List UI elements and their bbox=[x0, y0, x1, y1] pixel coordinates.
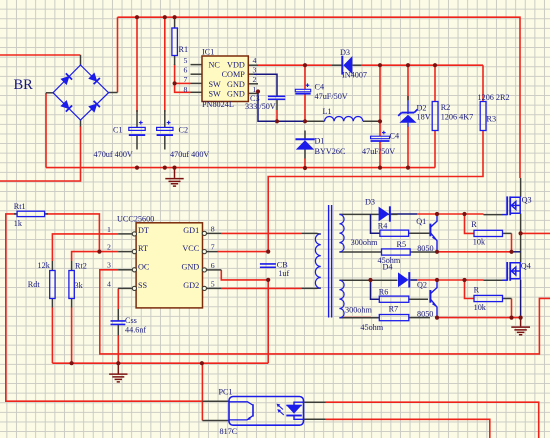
diode D3a IN4007 bbox=[342, 56, 352, 75]
node Css bottom rail bbox=[116, 361, 120, 365]
wire C4a top drop bbox=[304, 65, 306, 89]
ground right (Q4 source) bbox=[511, 318, 530, 335]
wire BR right vertex to top rail bbox=[117, 17, 119, 92]
node R10k2 bottom bbox=[509, 316, 513, 320]
resistor R3 bbox=[480, 102, 486, 131]
optocoupler PC1 box bbox=[229, 397, 304, 426]
wire BR right stub bbox=[109, 92, 118, 94]
wire R1 bottom stub bbox=[174, 56, 176, 66]
wire R3 bottom to VCC loop bbox=[268, 131, 483, 253]
wire GD1 coil lead bbox=[301, 232, 320, 235]
wire D3a right lead bbox=[353, 64, 362, 66]
node Rt2 bottom rail bbox=[70, 361, 74, 365]
svg-text:C4: C4 bbox=[390, 132, 400, 141]
wire D1 bottom stub bbox=[304, 150, 306, 159]
wire sec1 bottom lead red bbox=[343, 317, 371, 319]
wire Q3 gate lead bbox=[484, 214, 503, 216]
wire C3 bottom red bbox=[276, 110, 278, 121]
svg-text:IN4007: IN4007 bbox=[342, 71, 367, 80]
node pin1 IC1 bbox=[256, 89, 260, 93]
wire PC1 emitter stub bbox=[202, 420, 229, 422]
svg-text:2: 2 bbox=[253, 75, 257, 84]
svg-text:6: 6 bbox=[184, 66, 188, 75]
svg-text:OC: OC bbox=[138, 263, 150, 272]
wire D1 top stub bbox=[304, 131, 306, 139]
svg-text:GD2: GD2 bbox=[183, 281, 199, 290]
wire Css top stub bbox=[117, 309, 119, 321]
transformer secondary bottom coil bbox=[339, 280, 344, 318]
wire GD2 coil lead bbox=[301, 287, 320, 289]
svg-text:4: 4 bbox=[253, 56, 257, 65]
wire HB node to Q4 drain bbox=[520, 233, 522, 262]
wire CB vertical gnd bbox=[267, 280, 269, 363]
ground mid (main rail) bbox=[109, 363, 127, 382]
wire D1 red part bbox=[304, 159, 306, 169]
svg-text:470uf 400V: 470uf 400V bbox=[170, 150, 209, 159]
wire DT pin1 bbox=[52, 234, 118, 261]
diode D4 bbox=[398, 272, 409, 287]
wire sec2 top lead bbox=[339, 279, 397, 281]
svg-text:1: 1 bbox=[253, 85, 257, 94]
node C4a top bbox=[303, 63, 307, 67]
svg-text:BR: BR bbox=[14, 77, 34, 93]
svg-text:VDD: VDD bbox=[227, 61, 245, 70]
node R10k1 emitter bbox=[509, 250, 513, 254]
BR diode top-left bbox=[61, 73, 72, 84]
svg-text:R6: R6 bbox=[379, 287, 389, 296]
svg-text:Q2: Q2 bbox=[417, 280, 427, 289]
wire PC1 led top stub bbox=[304, 401, 326, 403]
svg-text:47uF/50V: 47uF/50V bbox=[362, 147, 395, 156]
wire R5 to Q1 emitter bbox=[410, 251, 437, 253]
svg-text:1uf: 1uf bbox=[278, 269, 289, 278]
wire IC1 pin5 stub bbox=[191, 64, 203, 66]
resistor Rt1 bbox=[17, 211, 44, 216]
wire L1 right stub bbox=[363, 120, 380, 122]
wire R6 to Q2 base bbox=[409, 298, 428, 300]
wire Rdt bottom stub bbox=[51, 299, 53, 308]
svg-text:18V: 18V bbox=[417, 113, 431, 122]
svg-text:R7: R7 bbox=[389, 304, 399, 313]
svg-text:300ohm: 300ohm bbox=[351, 238, 378, 247]
resistor R5 bbox=[382, 249, 411, 255]
wire Rt2 bottom bbox=[71, 308, 73, 364]
svg-text:300ohm: 300ohm bbox=[345, 305, 372, 314]
transistor Q2 8050 bbox=[430, 280, 437, 318]
svg-text:R: R bbox=[471, 220, 477, 229]
node C3 bottom bbox=[275, 119, 279, 123]
node VCC/CB top bbox=[266, 250, 270, 254]
node D2 top bbox=[406, 63, 410, 67]
node C1 top bbox=[135, 15, 139, 19]
wire gnd top rail bbox=[46, 167, 435, 169]
svg-text:7: 7 bbox=[211, 243, 215, 252]
svg-text:NC: NC bbox=[209, 61, 221, 70]
wire R10k-2 right stub bbox=[503, 298, 512, 300]
wire R2 bottom lead bbox=[434, 131, 436, 168]
wire UCC pin2 stub bbox=[118, 251, 132, 253]
wire GD1 red bbox=[221, 232, 301, 234]
mosfet Q3 bbox=[502, 196, 520, 215]
node gnd top bbox=[172, 166, 176, 170]
svg-text:D3: D3 bbox=[340, 48, 350, 57]
svg-text:GND: GND bbox=[227, 80, 245, 89]
capacitor C3 bbox=[268, 96, 285, 99]
node D1 bottom bbox=[303, 166, 307, 170]
diode D3b bbox=[379, 206, 390, 221]
wire pin6 GND route bbox=[221, 270, 268, 280]
wire R3 top lead bbox=[482, 65, 484, 101]
wire C4a bottom to L1 node bbox=[304, 94, 306, 122]
svg-text:1k: 1k bbox=[14, 219, 23, 228]
capacitor C1 bbox=[129, 121, 145, 135]
svg-text:IC1: IC1 bbox=[202, 48, 214, 57]
node L1 out top bbox=[378, 63, 382, 67]
wire Rt1 left to PC1 collector bbox=[6, 214, 203, 401]
wire RT row bbox=[72, 252, 119, 261]
wire sec2 bottom lead bbox=[339, 317, 379, 319]
wire D2 bottom lead bbox=[407, 127, 409, 168]
svg-text:Rt2: Rt2 bbox=[75, 262, 87, 271]
wire BR top stub bbox=[80, 55, 82, 66]
svg-text:R5: R5 bbox=[397, 240, 407, 249]
svg-text:GD1: GD1 bbox=[183, 226, 199, 235]
wire Css bottom stub bbox=[117, 325, 119, 336]
svg-text:8: 8 bbox=[211, 224, 215, 233]
svg-text:12k: 12k bbox=[38, 261, 51, 270]
svg-text:817C: 817C bbox=[220, 427, 238, 436]
diode D1 BYV26C bbox=[296, 139, 315, 149]
wire Rdt top stub bbox=[51, 261, 53, 271]
svg-text:10k: 10k bbox=[474, 303, 487, 312]
wire L1 left stub bbox=[305, 120, 325, 122]
zener D2 bbox=[398, 101, 417, 127]
wire sec1 bottom lead to R5 bbox=[339, 251, 381, 253]
wire IC1 pin8 stub bbox=[191, 91, 203, 93]
svg-text:Q3: Q3 bbox=[522, 195, 532, 204]
BR diode bottom-right bbox=[89, 101, 100, 112]
wire Rt1 right to RT dot bbox=[45, 214, 100, 252]
svg-text:R3: R3 bbox=[487, 115, 497, 124]
wire D2 top lead bbox=[407, 65, 409, 100]
PC1 phototransistor bbox=[229, 402, 253, 421]
wire C4b top red bbox=[379, 121, 381, 136]
svg-text:44.6nf: 44.6nf bbox=[125, 326, 146, 335]
transformer secondary top coil bbox=[339, 214, 344, 252]
wire R10k-1 right riser bbox=[511, 233, 513, 251]
resistor R2 bbox=[432, 102, 438, 131]
BR diode bottom-left bbox=[61, 100, 72, 111]
wire UCC pin3 stub bbox=[118, 269, 132, 271]
wire C2 stub top bbox=[164, 110, 166, 127]
svg-text:RT: RT bbox=[138, 244, 148, 253]
svg-text:8: 8 bbox=[184, 85, 188, 94]
wire D2 stub bbox=[407, 96, 409, 101]
resistor Rdt bbox=[50, 271, 55, 299]
wire VCC pin7 red bbox=[218, 251, 268, 253]
capacitor Css bbox=[111, 321, 126, 325]
resistor R6 bbox=[379, 296, 409, 302]
svg-text:D3: D3 bbox=[365, 198, 375, 207]
svg-text:3: 3 bbox=[107, 261, 111, 270]
resistor R1 bbox=[172, 28, 178, 56]
svg-text:PC1: PC1 bbox=[219, 388, 233, 397]
svg-text:Css: Css bbox=[125, 316, 137, 325]
IC1 body bbox=[202, 56, 248, 102]
svg-text:GND: GND bbox=[181, 263, 199, 272]
node sec2/R6 bbox=[368, 278, 372, 282]
capacitor C4b bbox=[371, 131, 390, 141]
svg-text:6: 6 bbox=[211, 261, 215, 270]
wire IC1 pin7 stub bbox=[191, 82, 203, 84]
node C2 top bbox=[163, 15, 167, 19]
svg-text:R: R bbox=[474, 286, 480, 295]
wire UCC pin5 stub bbox=[207, 287, 221, 289]
wire L1 out drop bbox=[379, 65, 381, 121]
svg-text:47uF/50V: 47uF/50V bbox=[315, 92, 348, 101]
svg-text:Q1: Q1 bbox=[416, 217, 426, 226]
wire PC1 emitter drop bbox=[201, 363, 203, 420]
wire sec1 top lead bbox=[339, 213, 397, 215]
svg-text:C2: C2 bbox=[179, 126, 189, 135]
wire BR bottom stub bbox=[80, 120, 82, 127]
resistor R7 bbox=[379, 315, 409, 321]
wire R10k-2 right riser bbox=[511, 299, 513, 318]
svg-text:1206 2R2: 1206 2R2 bbox=[478, 93, 510, 102]
wire Q4 source column bbox=[520, 280, 522, 318]
UCC pin circles left bbox=[132, 231, 206, 290]
wire UCC pin7 stub bbox=[207, 251, 218, 253]
capacitor C2 bbox=[157, 121, 173, 135]
svg-text:PN8024L: PN8024L bbox=[202, 100, 234, 109]
node Q4 gate bbox=[462, 278, 466, 282]
svg-text:D2: D2 bbox=[417, 104, 427, 113]
wire R7 to Q2 emitter bbox=[409, 317, 430, 319]
resistor Rt2 bbox=[69, 271, 74, 299]
BR diode top-right bbox=[89, 73, 100, 84]
node R1 top bbox=[173, 15, 177, 19]
wire PC1 LED bottom net bbox=[326, 419, 490, 438]
resistor R 10k (top) bbox=[474, 230, 503, 236]
wire C3 bottom stub bbox=[276, 99, 278, 110]
node HB mid bbox=[519, 231, 523, 235]
svg-text:5: 5 bbox=[184, 56, 188, 65]
wire C1 top drop bbox=[136, 17, 138, 112]
wire Rt2 bottom stub bbox=[71, 299, 73, 308]
svg-text:SS: SS bbox=[138, 281, 148, 290]
wire UCC pin4 stub bbox=[118, 287, 132, 289]
wire IC1 pin6 stub bbox=[191, 73, 203, 75]
wire IC1 pin4 stub bbox=[248, 64, 258, 66]
svg-text:D4: D4 bbox=[383, 263, 393, 272]
wire BR left stub bbox=[46, 92, 54, 94]
wire pin7 branch bbox=[175, 82, 191, 84]
wire Q1 emitter to source column bbox=[512, 251, 521, 253]
svg-text:5: 5 bbox=[211, 279, 215, 288]
inductor L1 bbox=[325, 116, 363, 121]
wire R4 to Q1 base bbox=[409, 232, 430, 234]
svg-text:UCC25600: UCC25600 bbox=[117, 215, 154, 224]
svg-text:R4: R4 bbox=[378, 221, 388, 230]
svg-text:Rdt: Rdt bbox=[28, 280, 41, 289]
wire D4 to Q2 collector bbox=[410, 279, 417, 281]
PC1 light arrows bbox=[277, 404, 284, 415]
wire GND rail B bbox=[52, 362, 268, 364]
wire IC1 pin2 stub bbox=[248, 83, 258, 85]
wire D3a left lead bbox=[332, 64, 342, 66]
node D2 bottom bbox=[406, 166, 410, 170]
svg-text:10k: 10k bbox=[473, 237, 486, 246]
wire HB output bbox=[521, 232, 550, 234]
wire BR left vertex to gnd rail bbox=[45, 93, 47, 168]
wire GD2 red bbox=[221, 287, 301, 289]
wire SS to Css bbox=[117, 288, 119, 309]
svg-text:Rt1: Rt1 bbox=[14, 202, 26, 211]
wire UCC pin6 stub bbox=[207, 269, 222, 271]
wire AC input top bbox=[0, 54, 81, 56]
wire pin4 net after D3 bbox=[361, 64, 483, 66]
wire C1 stub bottom bbox=[136, 135, 138, 150]
svg-text:3: 3 bbox=[253, 66, 257, 75]
wire R1 top stub bbox=[174, 17, 176, 28]
capacitor C4a bbox=[295, 83, 310, 93]
svg-text:SW: SW bbox=[209, 89, 222, 98]
wire AC input bottom bbox=[0, 126, 81, 181]
svg-text:VCC: VCC bbox=[182, 244, 199, 253]
svg-text:8050: 8050 bbox=[417, 244, 433, 253]
node R2 top bbox=[433, 63, 437, 67]
wire PC1 led bottom stub bbox=[304, 418, 326, 420]
svg-text:L1: L1 bbox=[323, 107, 332, 116]
svg-text:2: 2 bbox=[107, 243, 111, 252]
wire Rt2 top stub bbox=[71, 261, 73, 271]
wire R10k-1 right stub bbox=[503, 232, 512, 234]
wire Q3 source to HB node bbox=[520, 213, 522, 233]
node L1 out bbox=[378, 119, 382, 123]
svg-text:470uf 400V: 470uf 400V bbox=[94, 150, 133, 159]
wire Css bottom bbox=[117, 336, 119, 364]
svg-text:SW: SW bbox=[209, 80, 222, 89]
wire IC1 pin3 stub bbox=[248, 73, 254, 75]
node Q1 emitter bbox=[435, 250, 439, 254]
node C1 bottom bbox=[135, 166, 139, 170]
svg-text:7: 7 bbox=[184, 75, 188, 84]
svg-text:3k: 3k bbox=[75, 281, 84, 290]
svg-text:4: 4 bbox=[107, 279, 111, 288]
svg-text:Q4: Q4 bbox=[521, 261, 531, 270]
wire UCC pin8 stub bbox=[207, 232, 221, 234]
node Q2 emitter bbox=[435, 316, 439, 320]
node Q3 gate bbox=[462, 212, 466, 216]
wire Rt1 stubs bbox=[14, 213, 48, 215]
node C2 bottom bbox=[163, 166, 167, 170]
ground top (C1 C2 rail) bbox=[165, 168, 183, 187]
UCC25600 body bbox=[136, 223, 202, 308]
wire R1 bottom to pins 7,8 bbox=[175, 64, 191, 92]
svg-text:333 /50V: 333 /50V bbox=[245, 102, 276, 111]
svg-text:BYV26C: BYV26C bbox=[315, 147, 346, 156]
wire Q1 emitter row red bbox=[437, 251, 512, 253]
wire Q2 emitter row red bbox=[437, 317, 521, 319]
wire R6 drop bbox=[371, 280, 380, 299]
transformer primary coil bbox=[315, 234, 320, 289]
IC1 inner text bbox=[209, 61, 246, 99]
wire IC1 pin1 GND to L1 node bbox=[258, 92, 305, 122]
wire Q3 gate branch bbox=[465, 214, 475, 233]
wire C2 stub bottom bbox=[164, 135, 166, 150]
node Q2 collector bbox=[435, 278, 439, 282]
wire Q4 gate lead bbox=[484, 279, 503, 281]
wire pin4 net horizontal bbox=[258, 64, 332, 66]
wire Q4 gate branch bbox=[465, 280, 475, 299]
wire C1 stub top bbox=[136, 110, 138, 127]
wire R2 top lead bbox=[434, 65, 436, 101]
svg-text:45ohm: 45ohm bbox=[360, 323, 383, 332]
wire UCC pin1 stub bbox=[118, 233, 132, 235]
svg-text:1: 1 bbox=[107, 225, 111, 234]
svg-text:C1: C1 bbox=[113, 126, 123, 135]
wire D3b to Q1 collector bbox=[391, 213, 417, 215]
node PC1 drop rail bbox=[200, 361, 204, 365]
wire R4 drop bbox=[371, 214, 380, 233]
wire Rdt bottom bbox=[51, 308, 53, 364]
svg-text:GND: GND bbox=[227, 89, 245, 98]
svg-text:R1: R1 bbox=[179, 45, 189, 54]
node GND/CB bottom bbox=[266, 278, 270, 282]
transformer core bbox=[329, 205, 332, 318]
mosfet Q4 bbox=[502, 262, 520, 281]
svg-text:DT: DT bbox=[138, 226, 149, 235]
bridge rectifier BR bbox=[53, 65, 109, 120]
svg-text:8050: 8050 bbox=[417, 310, 433, 319]
wire OC net bbox=[100, 270, 550, 354]
resistor R4 bbox=[380, 230, 409, 236]
wire Q3 drain lead bbox=[520, 178, 522, 197]
node C4b bottom bbox=[378, 166, 382, 170]
wire PC1 collector stub bbox=[202, 400, 229, 402]
node RT junction bbox=[97, 250, 101, 254]
wire IC1 pin1 stub bbox=[248, 92, 258, 94]
wire top VDD rail bbox=[118, 17, 521, 178]
WIRES-NAVY bbox=[248, 74, 520, 317]
node L1 in bbox=[303, 119, 307, 123]
svg-text:R2: R2 bbox=[441, 103, 451, 112]
node Q4 source gnd bbox=[519, 316, 523, 320]
capacitor CB bbox=[260, 264, 276, 267]
resistor R 10k (bottom) bbox=[474, 295, 503, 301]
svg-text:COMP: COMP bbox=[222, 70, 246, 79]
node R1/pin7 bbox=[173, 81, 177, 85]
wire IC1 pin3 COMP to C3 bbox=[254, 74, 277, 96]
svg-text:D1: D1 bbox=[315, 137, 325, 146]
wire C2 top drop bbox=[164, 17, 166, 112]
svg-text:C4: C4 bbox=[315, 83, 325, 92]
svg-text:1206 4K7: 1206 4K7 bbox=[441, 113, 474, 122]
wire PC1 LED top net bbox=[326, 402, 539, 438]
transistor Q1 8050 bbox=[430, 214, 437, 252]
wire C4b bottom red bbox=[379, 141, 381, 168]
PC1 LED bbox=[286, 402, 303, 419]
node Q1 collector bbox=[435, 212, 439, 216]
